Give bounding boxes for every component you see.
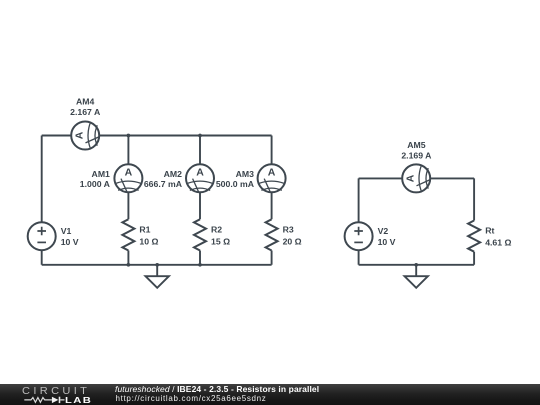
ammeter AM3 xyxy=(258,164,286,192)
ground (right circuit) xyxy=(405,265,428,288)
node: junction dot at ground tap xyxy=(155,263,159,267)
wire: right circuit top rail xyxy=(359,177,475,179)
wire: right circuit right rail (Rt branch) xyxy=(473,178,475,264)
label AM2 value xyxy=(144,169,183,189)
label AM1 value xyxy=(80,169,111,189)
svg-text:V1: V1 xyxy=(61,226,72,236)
footer url line xyxy=(116,394,267,403)
footer title line xyxy=(115,384,319,394)
ammeter AM4 (horizontal, top rail) xyxy=(71,122,99,150)
CircuitLab logo schematic doodle (resistor + diode) xyxy=(24,395,66,405)
resistor R1 xyxy=(122,219,134,250)
CircuitLab logo wordmark xyxy=(22,385,90,397)
wire: branch 3 vertical (AM3/R3) xyxy=(271,136,273,265)
node: junction dot bottom of branch 1 xyxy=(127,263,131,267)
footer bar xyxy=(0,384,540,405)
wire: left circuit left rail xyxy=(41,136,43,265)
ammeter AM5 (horizontal, top rail) xyxy=(402,164,430,192)
svg-text:AM3: AM3 xyxy=(236,169,255,179)
voltage source V1 xyxy=(28,222,56,250)
ground (left circuit) xyxy=(146,265,169,288)
svg-text:V2: V2 xyxy=(378,226,389,236)
svg-text:20 Ω: 20 Ω xyxy=(283,236,302,246)
svg-text:R3: R3 xyxy=(283,225,294,235)
svg-text:666.7 mA: 666.7 mA xyxy=(144,179,183,189)
CircuitLab logo LAB text xyxy=(65,396,92,405)
node: junction dot top of branch 1 xyxy=(127,134,131,138)
svg-text:AM1: AM1 xyxy=(92,169,111,179)
label R3 value xyxy=(283,225,302,247)
svg-text:500.0 mA: 500.0 mA xyxy=(216,179,255,189)
svg-text:10 Ω: 10 Ω xyxy=(139,236,158,246)
label R2 value xyxy=(211,225,230,247)
svg-text:10 V: 10 V xyxy=(378,237,396,247)
node: junction dot at right ground tap xyxy=(414,263,418,267)
label R1 value xyxy=(139,225,158,247)
svg-text:Rt: Rt xyxy=(485,226,494,236)
svg-text:AM4: AM4 xyxy=(76,97,95,107)
wire: branch 1 vertical (AM1/R1) xyxy=(127,136,129,265)
label AM5 value xyxy=(401,140,432,161)
svg-text:2.169 A: 2.169 A xyxy=(401,151,432,161)
resistor R3 xyxy=(266,219,278,250)
svg-text:AM2: AM2 xyxy=(164,169,183,179)
svg-text:10 V: 10 V xyxy=(61,237,79,247)
resistor Rt xyxy=(468,221,480,252)
wire: left circuit bottom rail xyxy=(42,264,272,266)
wire: branch 2 vertical (AM2/R2) xyxy=(199,136,201,265)
wire: left circuit top rail xyxy=(42,135,272,137)
voltage source V2 xyxy=(345,222,373,250)
svg-text:2.167 A: 2.167 A xyxy=(70,107,101,117)
label Rt value xyxy=(485,226,511,248)
label AM4 value xyxy=(70,97,101,117)
svg-text:1.000 A: 1.000 A xyxy=(80,179,111,189)
label V2 value xyxy=(378,226,396,247)
node: junction dot bottom of branch 2 xyxy=(198,263,202,267)
wire: right circuit left rail xyxy=(358,178,360,264)
label V1 value xyxy=(61,226,79,247)
svg-text:AM5: AM5 xyxy=(407,140,426,150)
ammeter AM1 xyxy=(114,164,142,192)
label AM3 value xyxy=(216,169,255,189)
svg-text:R2: R2 xyxy=(211,225,222,235)
svg-text:15 Ω: 15 Ω xyxy=(211,236,230,246)
ammeter AM2 xyxy=(186,164,214,192)
wire: right circuit bottom rail xyxy=(359,264,475,266)
svg-text:4.61 Ω: 4.61 Ω xyxy=(485,238,511,248)
node: junction dot top of branch 2 xyxy=(198,134,202,138)
resistor R2 xyxy=(194,219,206,250)
svg-text:R1: R1 xyxy=(139,225,150,235)
